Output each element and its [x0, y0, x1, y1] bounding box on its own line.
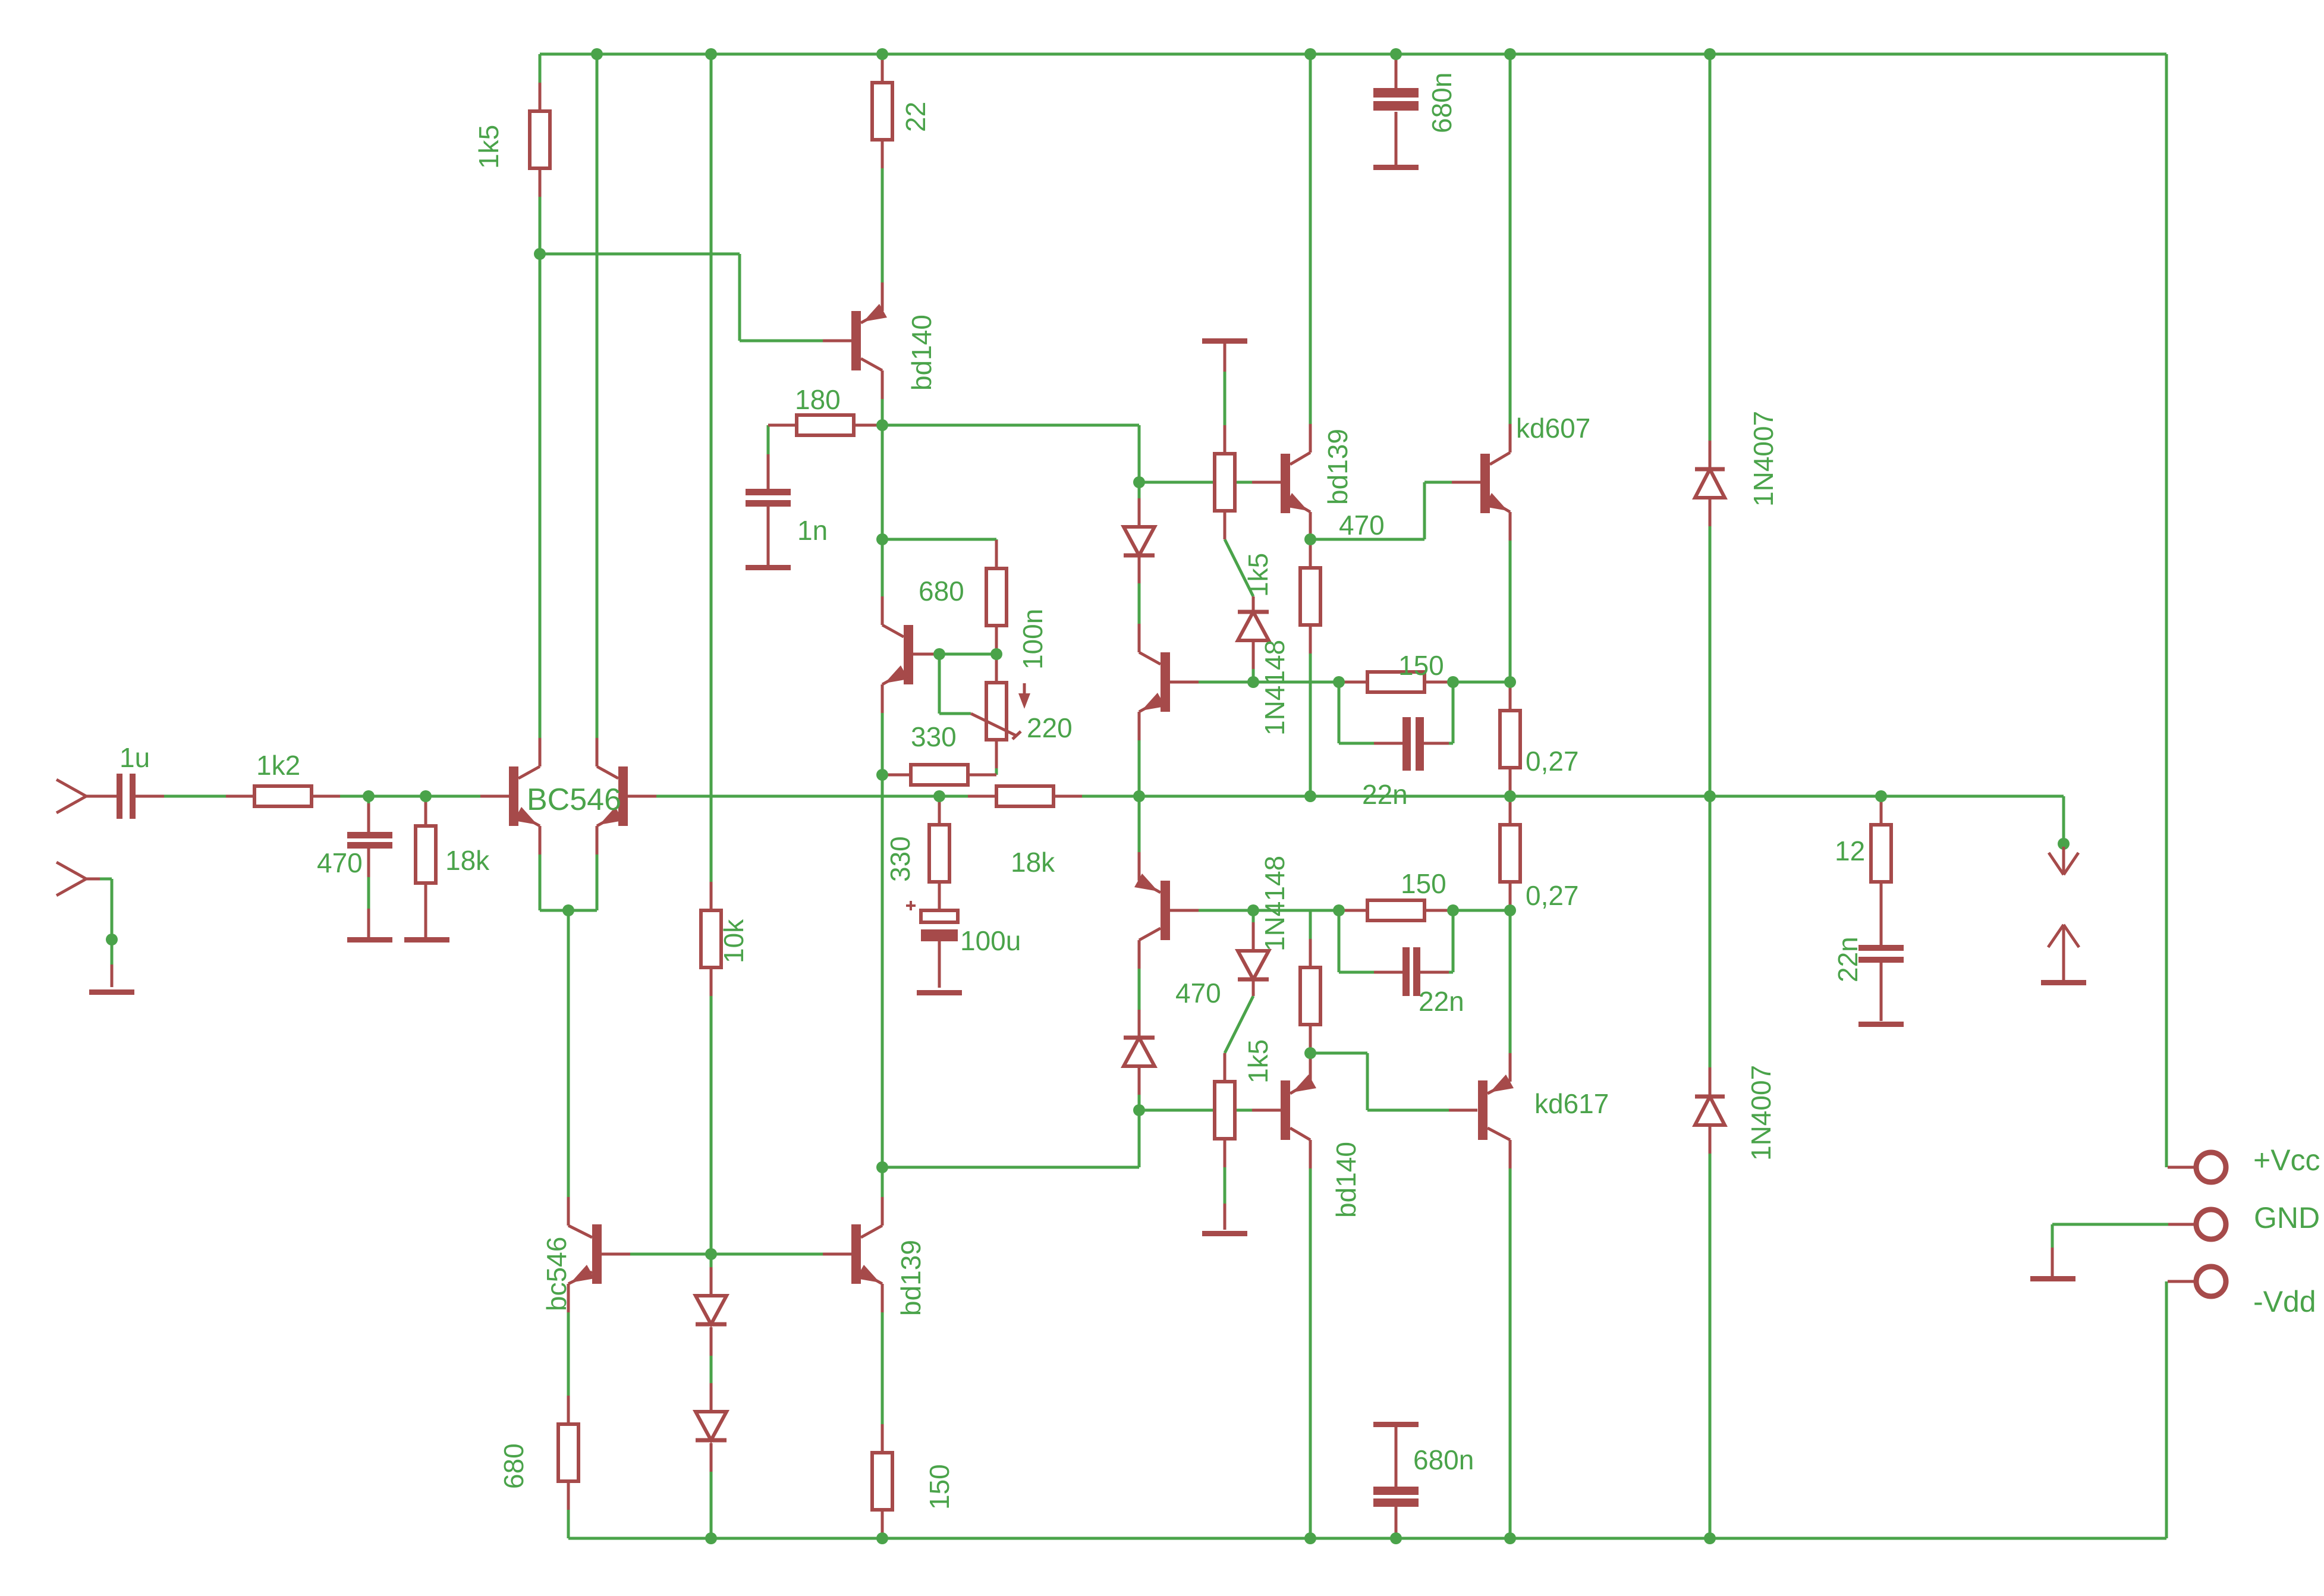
- svg-text:-Vdd: -Vdd: [2253, 1285, 2316, 1318]
- svg-text:330: 330: [885, 836, 916, 882]
- svg-text:GND: GND: [2254, 1201, 2320, 1234]
- svg-text:bd140: bd140: [1331, 1142, 1361, 1218]
- svg-text:12: 12: [1835, 835, 1865, 866]
- svg-text:kd617: kd617: [1534, 1088, 1609, 1119]
- svg-text:1n: 1n: [797, 515, 828, 546]
- svg-text:1k5: 1k5: [473, 125, 504, 169]
- svg-text:1N4007: 1N4007: [1748, 411, 1779, 507]
- svg-text:180: 180: [795, 384, 841, 415]
- svg-text:18k: 18k: [445, 845, 490, 876]
- svg-text:1k5: 1k5: [1243, 1039, 1273, 1083]
- svg-text:1k5: 1k5: [1243, 553, 1273, 597]
- svg-text:bd139: bd139: [1322, 429, 1353, 505]
- svg-text:150: 150: [1401, 868, 1446, 899]
- svg-text:22: 22: [900, 102, 931, 132]
- svg-text:1N4148: 1N4148: [1259, 856, 1290, 951]
- svg-text:680n: 680n: [1413, 1444, 1474, 1475]
- svg-text:bc546: bc546: [541, 1237, 572, 1311]
- svg-text:470: 470: [1339, 510, 1385, 541]
- svg-text:0,27: 0,27: [1526, 746, 1579, 777]
- svg-text:150: 150: [924, 1464, 955, 1510]
- svg-text:22n: 22n: [1419, 986, 1464, 1017]
- svg-text:470: 470: [317, 847, 363, 878]
- svg-text:680: 680: [919, 576, 964, 607]
- svg-text:0,27: 0,27: [1526, 880, 1579, 911]
- svg-text:bd139: bd139: [895, 1240, 926, 1316]
- svg-text:10k: 10k: [718, 919, 749, 963]
- svg-text:470: 470: [1175, 978, 1221, 1009]
- svg-text:22n: 22n: [1832, 937, 1863, 982]
- svg-text:1k2: 1k2: [256, 750, 300, 781]
- svg-text:100u: 100u: [960, 925, 1021, 956]
- svg-text:1u: 1u: [119, 742, 150, 773]
- svg-text:680n: 680n: [1426, 73, 1457, 133]
- svg-text:330: 330: [911, 721, 957, 752]
- svg-text:BC546: BC546: [527, 783, 621, 817]
- svg-text:680: 680: [498, 1443, 529, 1489]
- svg-text:18k: 18k: [1011, 847, 1055, 878]
- svg-text:1N4148: 1N4148: [1259, 640, 1290, 736]
- svg-text:1N4007: 1N4007: [1746, 1065, 1776, 1161]
- svg-text:22n: 22n: [1362, 779, 1408, 810]
- svg-text:kd607: kd607: [1516, 413, 1590, 444]
- svg-text:+Vcc: +Vcc: [2253, 1143, 2320, 1177]
- svg-text:100n: 100n: [1017, 609, 1048, 670]
- svg-text:bd140: bd140: [906, 315, 937, 391]
- svg-text:220: 220: [1027, 712, 1073, 743]
- svg-text:150: 150: [1398, 650, 1444, 681]
